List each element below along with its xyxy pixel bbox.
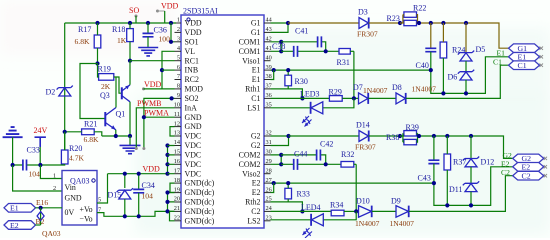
resistor R24	[440, 23, 465, 93]
svg-text:FR307: FR307	[355, 143, 376, 152]
bracket pin 22	[170, 211, 175, 220]
VDD rail to pin17	[108, 173, 168, 175]
pin 9 SO2	[175, 92, 199, 103]
E2 bottom rail	[434, 167, 513, 206]
svg-text:GND(dc): GND(dc)	[185, 179, 215, 188]
node rail-C36	[146, 21, 150, 25]
svg-text:21: 21	[174, 205, 180, 212]
power port 24V	[34, 126, 48, 165]
svg-text:VDD: VDD	[185, 19, 202, 28]
capacitor C42	[281, 140, 333, 165]
svg-text:R32: R32	[341, 150, 354, 159]
pin 38 E1	[252, 73, 272, 84]
node R17 bottom	[95, 61, 99, 65]
pin 2 VDD	[175, 26, 202, 37]
pin 13 VDC	[174, 130, 201, 141]
node R22/R23 right join	[417, 21, 421, 25]
svg-text:C2: C2	[522, 172, 531, 181]
svg-text:R38: R38	[386, 133, 399, 142]
wire C1 row to port	[406, 65, 509, 98]
pin 16 VDC	[174, 158, 201, 169]
svg-text:VDC: VDC	[185, 151, 202, 160]
wire gate rail to G2 port	[418, 136, 513, 158]
node C1 row	[300, 96, 304, 100]
port C1	[509, 61, 544, 70]
DC/DC module QA03 body	[42, 171, 101, 239]
svg-text:MOD: MOD	[185, 85, 204, 94]
E1 bottom rail	[431, 57, 509, 94]
svg-text:D12: D12	[481, 158, 495, 167]
wire pin24 C2	[271, 210, 332, 212]
svg-text:1N4007: 1N4007	[390, 219, 415, 228]
svg-text:D6: D6	[448, 73, 458, 82]
resistor R19	[98, 64, 122, 94]
svg-text:20: 20	[174, 196, 180, 203]
svg-text:VDD: VDD	[161, 2, 179, 11]
diode D3 FR307	[357, 8, 378, 39]
svg-text:6.8K: 6.8K	[84, 135, 99, 144]
svg-text:Q3: Q3	[100, 91, 110, 100]
node D12 top	[469, 134, 473, 138]
svg-text:Vin: Vin	[65, 183, 76, 192]
wire R31 riser to C1 row	[353, 51, 355, 98]
svg-text:1: 1	[177, 17, 180, 24]
svg-text:8: 8	[177, 83, 180, 90]
svg-text:23: 23	[266, 215, 272, 222]
capacitor C40	[416, 23, 437, 70]
svg-text:E1: E1	[10, 204, 19, 213]
svg-text:SO1: SO1	[185, 37, 199, 46]
resistor R39 (parallel pair upper)	[404, 123, 419, 136]
wire top rail VDD/SO	[65, 22, 176, 24]
zener diode D2	[46, 86, 73, 97]
svg-text:Viso1: Viso1	[242, 56, 260, 65]
pin 23 LS2	[247, 215, 271, 226]
svg-text:G1: G1	[251, 28, 261, 37]
svg-text:VDD: VDD	[144, 80, 162, 89]
svg-text:C33: C33	[27, 146, 40, 155]
pin 26 E2	[252, 186, 272, 197]
node INB	[160, 68, 164, 72]
svg-text:1N4007: 1N4007	[363, 86, 388, 95]
svg-text:R22: R22	[413, 4, 426, 13]
diode D7 1N4007	[353, 83, 388, 104]
svg-text:2: 2	[177, 26, 180, 33]
svg-text:6: 6	[177, 64, 180, 71]
svg-text:9: 9	[177, 92, 180, 99]
node C34 bottom	[137, 214, 141, 218]
wire to pin6 INB	[162, 69, 175, 71]
svg-text:E2: E2	[252, 179, 261, 188]
resistor R29	[329, 88, 359, 102]
svg-text:RC2: RC2	[185, 75, 200, 84]
svg-text:28: 28	[266, 167, 272, 174]
LED LED3	[271, 90, 354, 127]
svg-text:SO: SO	[129, 6, 139, 15]
svg-text:C1: C1	[251, 94, 260, 103]
pin 37 Rth1	[245, 83, 272, 94]
svg-text:D2: D2	[46, 88, 56, 97]
wire 24V rail to QA03 Vin	[40, 165, 62, 179]
svg-text:E16: E16	[36, 198, 48, 207]
wire D10 to D9	[372, 210, 396, 212]
svg-text:E1: E1	[497, 49, 506, 58]
E2 bus from pin27	[271, 182, 434, 184]
svg-text:100: 100	[159, 35, 171, 44]
pin 43 G1	[251, 26, 272, 37]
resistor R31	[337, 49, 354, 68]
node R39/R38 right join	[417, 134, 421, 138]
svg-text:C36: C36	[154, 26, 167, 35]
node D15 bottom	[123, 214, 127, 218]
svg-text:E2: E2	[252, 188, 261, 197]
svg-text:1N4007: 1N4007	[355, 219, 380, 228]
svg-text:104: 104	[29, 170, 41, 179]
wire node to Q1 base column	[80, 64, 105, 119]
svg-text:InA: InA	[185, 103, 198, 112]
svg-text:C44: C44	[294, 150, 307, 159]
svg-text:PWMA: PWMA	[144, 109, 169, 118]
GND(dc) bus pins 19-21	[168, 193, 175, 212]
svg-text:+Vo: +Vo	[80, 205, 93, 214]
svg-text:R20: R20	[69, 144, 82, 153]
resistor R23 (parallel pair lower)	[387, 14, 418, 26]
bracket pin26 to E2 bus	[271, 183, 274, 192]
svg-text:14: 14	[174, 139, 181, 146]
svg-text:C2: C2	[251, 207, 260, 216]
svg-text:FR307: FR307	[357, 30, 378, 39]
wire -Vo to bottom rail	[97, 211, 175, 216]
ground (below Q1)	[120, 136, 141, 154]
svg-text:11: 11	[174, 111, 180, 118]
pin 20 GND(dc)	[174, 196, 215, 207]
pin 32 G2	[251, 130, 272, 141]
wire E1 to QA03 0V	[36, 207, 63, 209]
svg-text:6.8K: 6.8K	[75, 37, 90, 46]
svg-text:2SD315AI: 2SD315AI	[183, 7, 218, 16]
pin 18 GND(dc)	[174, 177, 215, 188]
wire riser to pin3 SO1	[171, 23, 175, 42]
pin 3 SO1	[175, 36, 199, 47]
node R34/D10/LED4/R32	[354, 209, 358, 213]
pin 35 LS1	[247, 102, 271, 113]
diode D8 1N4007	[392, 83, 436, 104]
svg-text:C41: C41	[295, 27, 308, 36]
node E16	[39, 206, 43, 210]
svg-text:18: 18	[174, 177, 180, 184]
node rail-SO1 riser	[169, 21, 173, 25]
wire node to pin5 RC1	[130, 60, 175, 62]
svg-text:COM1: COM1	[239, 47, 261, 56]
pin 22 GND(dc)	[174, 215, 215, 226]
svg-text:17: 17	[174, 167, 180, 174]
port E2 (input)	[4, 221, 36, 230]
port C2	[513, 171, 547, 180]
wire Q1 collector riser	[115, 77, 117, 108]
svg-text:GND: GND	[185, 122, 202, 131]
svg-text:1: 1	[53, 173, 56, 180]
resistor R22 (parallel pair upper)	[404, 4, 426, 18]
node R37 top	[445, 134, 449, 138]
zener diode D15	[108, 174, 134, 217]
svg-text:C38: C38	[272, 42, 285, 51]
pin 25 Rth2	[245, 196, 272, 207]
pin 31 G2	[251, 139, 272, 150]
pin 11 GND	[174, 111, 202, 122]
diode D10 1N4007	[355, 197, 380, 229]
wire Q3 collector down to emitter row	[129, 102, 131, 136]
svg-text:C34: C34	[142, 181, 155, 190]
pin 36 C1	[251, 92, 272, 103]
svg-text:LED4: LED4	[301, 203, 321, 212]
pin 29 COM2	[239, 158, 272, 169]
pin 28 Viso2	[242, 167, 272, 178]
svg-text:0V: 0V	[65, 208, 75, 217]
svg-text:7: 7	[177, 73, 180, 80]
wire R33 bottom to Rth2 and C2 row	[271, 202, 303, 212]
svg-text:Q1: Q1	[116, 110, 126, 119]
svg-text:LED3: LED3	[300, 90, 320, 99]
capacitor C34	[133, 174, 155, 217]
port E1 (output)	[509, 53, 544, 62]
pin 6 INB	[175, 64, 199, 75]
svg-text:Rth1: Rth1	[245, 85, 260, 94]
port G1	[509, 44, 544, 53]
resistor R33	[285, 183, 310, 202]
svg-text:R31: R31	[337, 58, 350, 67]
bracket pins 12-13	[170, 127, 175, 136]
wire gate rail to G1 port	[418, 23, 509, 48]
svg-text:Rth2: Rth2	[245, 198, 260, 207]
svg-text:4.7K: 4.7K	[69, 154, 84, 163]
svg-text:R18: R18	[112, 25, 125, 34]
resistor R20	[40, 132, 84, 165]
diode D14 FR307	[355, 121, 376, 152]
wire left column from rail to D2/R20	[64, 23, 66, 150]
svg-text:C1: C1	[493, 58, 502, 67]
svg-text:D8: D8	[392, 83, 402, 92]
svg-text:VDC: VDC	[185, 141, 202, 150]
svg-text:D14: D14	[356, 121, 370, 130]
svg-text:24V: 24V	[34, 126, 48, 135]
pin 10 InA	[174, 102, 197, 113]
svg-text:R34: R34	[330, 201, 343, 210]
pin 41 COM1	[239, 45, 272, 56]
capacitor C43	[418, 136, 440, 183]
svg-text:19: 19	[174, 186, 180, 193]
svg-text:COM1: COM1	[239, 37, 261, 46]
node rail-R17	[95, 21, 99, 25]
wire gnd rail to QA03 GND	[13, 165, 62, 191]
svg-text:R19: R19	[98, 65, 111, 74]
pin 42 COM1	[239, 36, 272, 47]
svg-text:GND(dc): GND(dc)	[185, 188, 215, 197]
port E2 (output)	[513, 163, 547, 172]
node D5 top	[464, 21, 468, 25]
svg-text:1K: 1K	[117, 36, 127, 45]
resistor R32	[341, 150, 356, 167]
node rail-R18	[128, 21, 132, 25]
svg-text:COM2: COM2	[239, 151, 261, 160]
node R29/D7/LED3/R31	[352, 96, 356, 100]
svg-text:10: 10	[174, 102, 180, 109]
resistor R34	[330, 201, 359, 216]
pin 1 VDD	[175, 17, 202, 28]
pin 14 VDC	[174, 139, 201, 150]
wire D7 to D8	[368, 97, 396, 99]
svg-text:VDD: VDD	[185, 28, 202, 37]
svg-text:104: 104	[142, 192, 154, 201]
svg-text:C43: C43	[418, 174, 431, 183]
svg-text:D10: D10	[356, 197, 370, 206]
pin 5 RC1	[175, 54, 200, 65]
wire SO2 pin9	[144, 98, 175, 117]
zener diode D12	[463, 136, 494, 167]
pin 17 VDC	[174, 167, 201, 178]
svg-text:GND: GND	[185, 113, 202, 122]
pin 19 GND(dc)	[174, 186, 215, 197]
svg-text:2K: 2K	[101, 82, 111, 91]
pin 8 MOD	[175, 83, 204, 94]
capacitor C41	[281, 27, 326, 52]
bracket pin38 to E1 bus	[271, 70, 274, 79]
svg-text:40: 40	[266, 54, 272, 61]
wire Q1 emitter to ground row	[102, 130, 130, 136]
svg-text:1N4007: 1N4007	[412, 85, 437, 94]
node R24 top	[441, 21, 445, 25]
svg-text:G1: G1	[251, 19, 261, 28]
pin 30 COM2	[239, 149, 272, 160]
transistor Q3 (PNP)	[100, 85, 130, 102]
jumper B2 (diamond)	[36, 208, 45, 226]
svg-text:VL: VL	[185, 47, 196, 56]
node C33 left	[11, 163, 15, 167]
E1 bus from pin39	[271, 69, 431, 71]
node C34 top	[137, 172, 141, 176]
node C40 top	[429, 21, 433, 25]
wire VL pin4 to INB/MOD column	[162, 51, 175, 89]
node D15 top	[123, 172, 127, 176]
wire G1 pins 44/43 tie	[271, 23, 289, 32]
pin 27 E2	[252, 177, 272, 188]
svg-text:12: 12	[174, 120, 180, 127]
svg-text:LS1: LS1	[247, 103, 260, 112]
svg-text:15: 15	[174, 149, 180, 156]
svg-text:C40: C40	[416, 61, 429, 70]
wire C2 row to port	[409, 176, 513, 212]
wire D14 to R39/R38	[369, 135, 400, 137]
svg-text:E2: E2	[10, 221, 19, 230]
wire G1 row to D3	[288, 22, 359, 24]
pin 21 GND(dc)	[174, 205, 215, 216]
ground (below C36)	[138, 48, 158, 56]
wire +Vo riser	[97, 174, 108, 203]
svg-text:GND: GND	[65, 194, 82, 203]
svg-text:−Vo: −Vo	[80, 215, 93, 224]
svg-text:QA03: QA03	[42, 229, 61, 238]
svg-text:D3: D3	[358, 8, 368, 17]
svg-text:PWMB: PWMB	[137, 99, 161, 108]
pin 7 RC2	[175, 73, 200, 84]
svg-text:C1: C1	[518, 61, 527, 70]
wire R32 riser to C2 row	[355, 164, 357, 211]
wire PWMA to pin11	[144, 117, 175, 148]
ground (left, above C33)	[3, 127, 23, 165]
node R18 bottom / RC1	[128, 59, 132, 63]
svg-text:G2: G2	[251, 141, 261, 150]
svg-text:22: 22	[174, 215, 180, 222]
svg-text:C2: C2	[501, 168, 510, 177]
wire VDD stub to pin8 MOD	[144, 88, 175, 90]
svg-text:E2: E2	[522, 163, 531, 172]
resistor R17	[75, 23, 101, 64]
pin 12 GND	[174, 120, 202, 131]
resistor R37	[444, 136, 466, 205]
wire E2 to jumper	[36, 224, 41, 226]
wire G2 pins 32/31 tie	[271, 136, 289, 146]
svg-text:R21: R21	[84, 120, 97, 129]
wire R30 bottom to Rth1 and C1 row	[271, 89, 303, 99]
node C33 right / 24V / R20	[38, 163, 42, 167]
capacitor C36	[143, 23, 171, 48]
svg-text:R30: R30	[295, 77, 308, 86]
resistor R38 (parallel pair lower)	[386, 133, 418, 145]
capacitor C44	[281, 150, 341, 170]
svg-text:VDC: VDC	[185, 160, 202, 169]
svg-text:G2: G2	[251, 132, 261, 141]
wire Q3 emitter to R18 node	[129, 61, 131, 85]
svg-text:GND(dc): GND(dc)	[185, 207, 215, 216]
svg-text:R29: R29	[329, 88, 342, 97]
port G2	[513, 154, 547, 163]
svg-text:GND(dc): GND(dc)	[185, 216, 215, 225]
LED LED4	[271, 203, 357, 238]
svg-text:SO2: SO2	[185, 94, 199, 103]
svg-text:16: 16	[174, 158, 180, 165]
capacitor C38	[272, 42, 339, 57]
svg-text:2: 2	[53, 185, 56, 192]
wire pin36 C1	[271, 97, 330, 99]
svg-text:LS2: LS2	[247, 216, 260, 225]
COM2 ties pins 30/29	[271, 155, 282, 164]
port E1 (input)	[4, 204, 36, 213]
node D2/R20/R21	[63, 130, 67, 134]
svg-text:E1: E1	[252, 66, 261, 75]
resistor R18	[112, 23, 133, 61]
VDC bus pins 14-17	[167, 146, 169, 174]
zener diode D5	[458, 23, 485, 61]
wire PWMB to pin10 InA	[136, 108, 174, 149]
svg-text:D11: D11	[449, 185, 462, 194]
svg-text:RC1: RC1	[185, 56, 200, 65]
wire D3 to R22/R23	[369, 22, 400, 24]
svg-text:R23: R23	[387, 14, 400, 23]
bracket pins 18-19	[170, 183, 175, 192]
resistor R21	[65, 120, 102, 145]
pin 44 G1	[251, 17, 273, 28]
node C2 row	[300, 209, 304, 213]
svg-text:D9: D9	[391, 197, 401, 206]
svg-text:Viso2: Viso2	[242, 169, 260, 178]
pin 24 C2	[251, 205, 272, 216]
svg-text:D5: D5	[476, 45, 486, 54]
pin 15 VDC	[174, 149, 201, 160]
op-amp/driver IC U1 2SD315AI body	[181, 7, 264, 229]
svg-text:3: 3	[177, 36, 180, 43]
svg-text:C42: C42	[320, 140, 333, 149]
wire G2 row to D14	[289, 135, 360, 137]
svg-text:13: 13	[174, 130, 180, 137]
